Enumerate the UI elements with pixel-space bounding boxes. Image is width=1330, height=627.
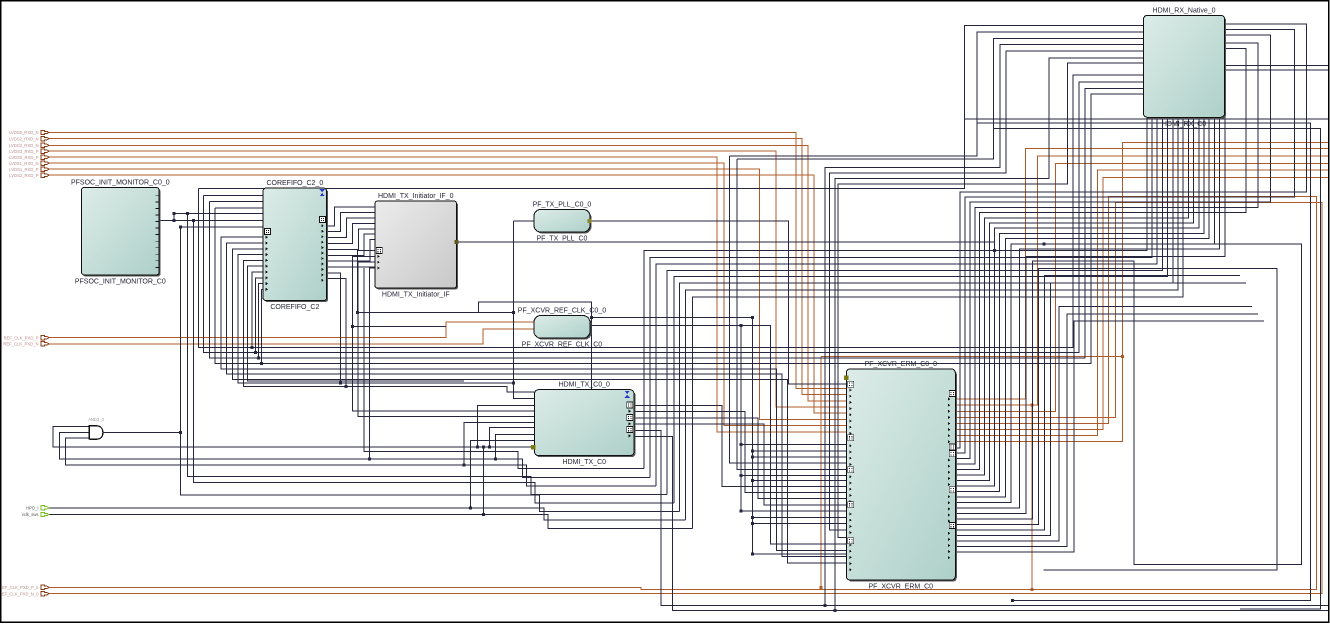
block PFSOC_INIT_MONITOR_C0_0 (71, 179, 170, 285)
wire fifo low1 (327, 273, 341, 383)
wire xcvr rx bottom (955, 117, 1219, 508)
pins COREFIFO (265, 216, 326, 291)
wire below rx loop (994, 129, 1321, 610)
svg-text:HDMI_RX_Native_0: HDMI_RX_Native_0 (1153, 7, 1216, 14)
svg-text:vclk_sws: vclk_sws (22, 512, 39, 517)
junction (751, 455, 754, 458)
svg-text:PF_TX_PLL_C0_0: PF_TX_PLL_C0_0 (533, 201, 592, 208)
junction (192, 219, 195, 222)
wire tap D branch (752, 480, 846, 482)
junction (1030, 404, 1033, 407)
wire XCVR TXD (955, 143, 1329, 442)
junction (254, 351, 257, 354)
wire branch (495, 435, 534, 460)
svg-text:HDMI_RX_C0: HDMI_RX_C0 (1162, 121, 1206, 128)
junction (494, 458, 497, 461)
svg-text:HDMI_TX_C0_0: HDMI_TX_C0_0 (559, 382, 610, 389)
svg-text:HDMI_TX_Initiator_IF_0: HDMI_TX_Initiator_IF_0 (378, 193, 454, 200)
wire rx to tx (674, 117, 1168, 503)
svg-text:PF_XCVR_ERM_C0: PF_XCVR_ERM_C0 (869, 584, 934, 591)
input port LVDS0_RXD_P (9, 155, 49, 160)
svg-text:REF_CLK_PXD_P_0: REF_CLK_PXD_P_0 (0, 585, 39, 590)
wire xcvr rx wrap (955, 29, 1294, 453)
wire loop drop B (1031, 405, 1033, 589)
svg-text:PF_XCVR_REF_CLK_C0_0: PF_XCVR_REF_CLK_C0_0 (518, 308, 606, 315)
junction (740, 324, 743, 327)
junction (250, 346, 253, 349)
wire xcvr rx bottom (955, 117, 1209, 497)
wire fifo to txif (327, 245, 376, 267)
junction (356, 311, 359, 314)
wire AND out (103, 431, 181, 433)
junction (488, 445, 491, 448)
wire tap D branch (752, 450, 846, 452)
wire txif1 (358, 251, 375, 313)
wire LVDS RXD (47, 157, 846, 432)
wire trunk band (209, 88, 1143, 358)
wire XCVR TXD (955, 170, 1329, 435)
wire tap D branch (752, 516, 846, 518)
wire bottom A (634, 430, 1329, 605)
wire xcvr nest (955, 283, 1246, 536)
svg-text:COREFIFO_C2: COREFIFO_C2 (270, 304, 319, 311)
input port REF_CLK_PXD_P (4, 335, 49, 340)
wire XCVR TXD (955, 177, 1329, 429)
wire trunk mid (825, 45, 1144, 606)
wire txif out (457, 242, 995, 250)
wire (204, 194, 263, 196)
wire bottom B (634, 437, 1329, 611)
junction (257, 357, 260, 360)
wire fifo loop (227, 243, 847, 557)
junction (751, 316, 754, 319)
wire pll in d (513, 221, 534, 399)
junction (462, 464, 465, 467)
wire fifo to txif (327, 240, 375, 262)
wire big loop A (955, 244, 1301, 565)
wire tx out (634, 424, 846, 505)
wire tap D branch (752, 456, 846, 458)
wire xcvr rx wrap (955, 43, 1258, 464)
svg-text:LVDS2_RXD_N: LVDS2_RXD_N (9, 136, 38, 141)
wire xcvr rx bottom (955, 117, 1214, 502)
wire (181, 226, 263, 228)
wire txif2 (353, 256, 535, 411)
wire PFSOC out (159, 220, 174, 222)
wire tap C (741, 326, 846, 511)
junction (186, 212, 189, 215)
wire XCVR TXD (955, 156, 1329, 405)
junction (368, 458, 371, 461)
wire refclk out (590, 326, 846, 545)
wire (173, 214, 175, 221)
junction (590, 316, 593, 319)
wire fifo to txif (327, 229, 375, 250)
junction (179, 226, 182, 229)
pin HDMI_TX_Initiator_IF out (455, 240, 459, 244)
junction (751, 450, 754, 453)
icon HDMI_TX configure diamond (625, 391, 630, 398)
svg-text:LVDS3_RXD_P: LVDS3_RXD_P (9, 149, 38, 154)
junction (172, 219, 175, 222)
wire fifo loop (261, 289, 263, 363)
input port REF_CLK_PXD_P_0 (0, 585, 49, 590)
junction (179, 431, 182, 434)
junction (482, 445, 485, 448)
junction (823, 604, 826, 607)
svg-text:PF_XCVR_REF_CLK_C0: PF_XCVR_REF_CLK_C0 (522, 342, 603, 349)
wire vclk (47, 515, 693, 529)
junction (751, 479, 754, 482)
wire vclk branch (483, 447, 485, 515)
svg-text:LVDS1_RXD_N: LVDS1_RXD_N (9, 161, 38, 166)
junction (172, 212, 175, 215)
svg-text:LVDS0_RXD_P: LVDS0_RXD_P (9, 155, 38, 160)
wire trunk band (198, 75, 1143, 347)
junction (834, 609, 837, 612)
wire pll in c (513, 220, 534, 222)
junction (1042, 242, 1045, 245)
block HDMI_TX_Initiator_IF_0 (375, 193, 458, 299)
junction (1030, 588, 1033, 591)
input port LVDS1_RXD_N (9, 161, 49, 166)
block COREFIFO_C2_0 (263, 180, 328, 311)
wire branch (464, 422, 535, 465)
wire fifo loop (244, 260, 535, 392)
svg-text:PF_TX_PLL_C0: PF_TX_PLL_C0 (536, 236, 587, 243)
wire tap B feed (592, 317, 753, 319)
svg-text:HDMI_TX_Initiator_IF: HDMI_TX_Initiator_IF (382, 292, 450, 299)
svg-text:LVDS1_RXD_P: LVDS1_RXD_P (9, 167, 38, 172)
wire (215, 207, 263, 209)
input port LVDS3_RXD_N (9, 143, 49, 148)
wire fifo to txif (327, 234, 375, 255)
junction (993, 249, 996, 252)
wire tx out (634, 418, 846, 499)
wire tx out (634, 405, 846, 486)
wire xcvr rx bottom (955, 117, 1225, 513)
input port LVDS2_RXD_P (9, 173, 49, 178)
wire xcvr nest (955, 307, 1252, 541)
wire LVDS RXD (47, 175, 846, 413)
input port LVDS3_RXD_P (9, 149, 49, 154)
wire xcvr rx wrap (955, 48, 1246, 469)
junction (351, 325, 354, 328)
wire AND in2 (59, 432, 650, 477)
wire tap C branch (741, 475, 846, 477)
wire AND in1 (53, 427, 534, 447)
svg-text:COREFIFO_C2_0: COREFIFO_C2_0 (266, 180, 323, 187)
pin PLL out (588, 219, 592, 223)
svg-text:AND3_0: AND3_0 (88, 417, 104, 422)
svg-text:REF_CLK_PXD_P: REF_CLK_PXD_P (4, 335, 39, 340)
junction (469, 506, 472, 509)
wire tap A top (730, 32, 1144, 156)
wire txif3 (358, 262, 534, 416)
wire xcvr nest (955, 276, 1240, 530)
pins XCVR left (848, 381, 854, 571)
wire loop across (821, 356, 1123, 358)
wire rx to tx (650, 117, 1152, 477)
wire (174, 213, 263, 215)
wire pll in b (479, 302, 592, 390)
wire XCVR TXD (955, 163, 1329, 411)
wire rx to tx (656, 117, 1157, 486)
wire tap A (730, 156, 847, 463)
wire tx out (634, 412, 846, 493)
wire trunk band (215, 94, 1143, 364)
wire xcvr nest (955, 321, 1264, 552)
svg-text:PF_XCVR_ERM_C0_0: PF_XCVR_ERM_C0_0 (865, 361, 937, 368)
wire tap D (752, 318, 846, 554)
wire (209, 201, 263, 203)
wire fifo to txif (327, 207, 375, 226)
wire HPD (47, 508, 686, 520)
wire tap D branch (752, 523, 846, 525)
wire (187, 214, 667, 495)
wire LVDS RXD (47, 139, 846, 395)
wire rx to tx (680, 117, 1173, 511)
block HDMI_TX_C0_0 (535, 382, 636, 467)
wire LVDS RXD (47, 169, 846, 419)
pins HDMI_TX_Initiator_IF (376, 248, 382, 270)
wire fifo to txif (327, 223, 375, 243)
svg-text:LVDS3_RXD_N: LVDS3_RXD_N (9, 143, 38, 148)
wire trunk top (198, 26, 1143, 189)
wire REF_CLK_P (47, 322, 534, 338)
junction (512, 382, 515, 385)
wire below rx loop (977, 123, 1310, 600)
input port REF_CLK_PXD_N (3, 342, 49, 347)
wire xcvr nest (955, 314, 1258, 547)
wire rx out (1225, 64, 1329, 66)
junction (1121, 355, 1124, 358)
wire pll out (590, 221, 846, 384)
wire stub (353, 325, 446, 327)
wire REF_CLK_N (47, 329, 534, 344)
wire (174, 220, 263, 222)
wire fifo loop (232, 249, 846, 563)
wire REFCLK bottom N (47, 202, 1322, 593)
junction (339, 382, 342, 385)
wire xcvr rx bottom (955, 117, 1188, 475)
wire tap C branch (741, 443, 846, 445)
input port LVDS0_RXD_N (9, 130, 49, 135)
wire fifo loop (221, 237, 846, 551)
svg-text:REF_CLK_PXD_N: REF_CLK_PXD_N (3, 342, 38, 347)
wire trunk mid (829, 51, 1143, 530)
junction (820, 586, 823, 589)
junction (740, 443, 743, 446)
svg-text:LVDS2_RXD_P: LVDS2_RXD_P (9, 173, 38, 178)
wire rx to tx (644, 117, 1147, 468)
pin HDMI_TX clk (531, 445, 536, 450)
wire fifo loop (255, 278, 263, 353)
junction (751, 516, 754, 519)
block PF_XCVR_ERM_C0_0 (846, 361, 957, 591)
AND gate AND2_0 (88, 417, 104, 440)
wire rx out (1225, 69, 1329, 71)
wire AND in3 (65, 438, 655, 486)
input port LVDS2_RXD_N (9, 136, 49, 141)
wire fifo loop (258, 284, 263, 359)
pins XCVR right (948, 390, 956, 559)
wire trunk mid (835, 58, 1143, 611)
wire fifo loop (252, 272, 263, 348)
wire branch (490, 427, 535, 447)
wire xcvr rx wrap (955, 35, 1270, 459)
wire txif4 (370, 268, 375, 459)
junction (751, 522, 754, 525)
wire xcvr rx bottom (955, 117, 1199, 486)
junction (476, 445, 479, 448)
wire fifo loop (238, 255, 513, 384)
pins PFSOC right edge (155, 195, 159, 267)
wire branch (477, 405, 534, 447)
wire (181, 227, 680, 511)
wire big loop B (955, 268, 1277, 570)
wire LVDS RXD (47, 151, 846, 407)
wire HPD branch (471, 440, 535, 508)
junction (260, 362, 263, 365)
svg-text:PFSOC_INIT_MONITOR_C0_0: PFSOC_INIT_MONITOR_C0_0 (71, 179, 170, 186)
wire below rx (965, 118, 1329, 120)
wire pll in a (358, 311, 479, 313)
wire LVDS RXD (47, 163, 846, 426)
wire (364, 268, 644, 468)
junction (512, 311, 515, 314)
wire rx to tx (667, 117, 1162, 494)
wire (193, 221, 674, 504)
wire xcvr rx wrap (955, 24, 1306, 448)
wire XCVR TXD (955, 149, 1329, 399)
junction (740, 509, 743, 512)
wire fifo low2 (327, 278, 346, 386)
junction (345, 385, 348, 388)
svg-text:HDMI_TX_C0: HDMI_TX_C0 (562, 459, 606, 466)
wire (479, 311, 514, 313)
svg-text:LVDS0_RXD_N: LVDS0_RXD_N (9, 130, 38, 135)
wire tap B (737, 159, 846, 470)
wire trunk mid (838, 63, 1143, 537)
svg-text:PFSOC_INIT_MONITOR_C0: PFSOC_INIT_MONITOR_C0 (75, 279, 166, 286)
input port vclk_sws (22, 512, 49, 517)
wire fifo loop (248, 266, 464, 381)
wire tap B top (737, 38, 1143, 159)
wire REFCLK bottom P (47, 197, 1317, 590)
wire rx to tx (686, 117, 1178, 520)
wire rx to tx (693, 117, 1184, 528)
icon COREFIFO configure diamond (320, 189, 325, 196)
block HDMI_RX_Native_0 (1143, 7, 1226, 128)
input port LVDS1_RXD_P (9, 167, 49, 172)
wire fifo to txif (327, 218, 375, 238)
block PF_TX_PLL_C0_0 (533, 201, 592, 242)
input port HPD_I (26, 506, 49, 511)
block PF_XCVR_REF_CLK_C0_0 (518, 308, 606, 349)
wire loop drop A (820, 357, 822, 588)
junction (751, 552, 754, 555)
wire LVDS RXD (47, 145, 846, 400)
pin XCVR clk nub (844, 375, 849, 380)
svg-text:HPD_I: HPD_I (26, 506, 38, 511)
input port REF_CLK_PXD_N_0 (0, 591, 49, 596)
wire LVDS RXD (47, 133, 846, 389)
junction (482, 513, 485, 516)
wire xcvr rx bottom (955, 117, 1204, 491)
wire fifo to txif (327, 212, 375, 231)
junction (1011, 599, 1014, 602)
svg-text:REF_CLK_PXD_N_0: REF_CLK_PXD_N_0 (0, 591, 39, 596)
junction (740, 474, 743, 477)
wire trunk band (204, 82, 1144, 353)
wire xcvr rx bottom (955, 117, 1193, 480)
pins HDMI_TX right (627, 402, 633, 438)
